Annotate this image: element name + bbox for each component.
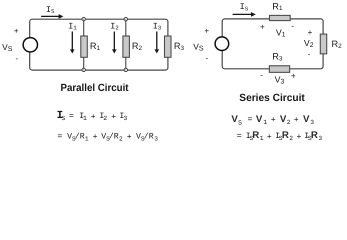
svg-text:R1: R1 [272,1,283,12]
svg-text:-: - [308,49,311,58]
svg-text:R2: R2 [132,41,143,52]
wire: parallel branch 2 vertical [125,19,127,70]
svg-text:V2: V2 [304,38,314,49]
svg-text:VS=V1+V2+V3: VS=V1+V2+V3 [231,114,314,127]
svg-text:+: + [260,23,265,32]
svg-text:I3: I3 [153,22,162,32]
svg-text:+: + [291,71,296,80]
resistor R2 (series) [320,34,326,54]
svg-text:V1: V1 [276,28,286,39]
node: junction bottom-right [124,68,127,71]
svg-text:-: - [291,22,294,31]
node: junction top-right [124,17,127,20]
svg-text:V3: V3 [275,74,285,85]
svg-text:-: - [260,70,263,79]
svg-text:IS: IS [240,2,249,12]
svg-text:Parallel Circuit: Parallel Circuit [61,83,130,94]
svg-text:+: + [204,26,209,35]
svg-text:Series Circuit: Series Circuit [239,93,305,104]
resistor R2 [123,36,129,57]
wire: parallel circuit outer loop [30,19,168,70]
svg-text:R2: R2 [332,39,343,50]
svg-text:=ISR1+ISR2+ISR3: =ISR1+ISR2+ISR3 [237,130,323,142]
svg-text:+: + [14,26,19,35]
current arrow I3 [156,32,158,50]
voltage source VS (series) [215,37,229,51]
current arrow IS (parallel) [41,15,59,17]
current arrow IS (series) [233,13,252,15]
svg-text:I2: I2 [110,22,119,32]
resistor R3 (parallel) [165,36,172,57]
svg-text:R3: R3 [272,52,283,63]
current arrow I1 [71,32,73,50]
resistor R1 [81,36,88,57]
svg-text:R3: R3 [174,41,185,52]
svg-text:+: + [308,28,313,37]
wire: series circuit outer loop [222,19,323,69]
svg-text:IS=I1+I2+I3: IS=I1+I2+I3 [57,110,128,122]
wire: parallel branch 1 vertical [83,19,85,70]
svg-text:-: - [16,54,19,63]
node: junction bottom-left [82,68,85,71]
resistor R3 (series) [269,66,289,73]
svg-text:I1: I1 [68,22,77,32]
svg-text:IS: IS [46,5,55,15]
node: junction top-left [82,17,85,20]
svg-text:-: - [206,53,209,62]
svg-text:VS: VS [193,41,204,52]
resistor R1 (series) [270,15,291,20]
svg-text:=VS/R1+VS/R2+VS/R3: =VS/R1+VS/R2+VS/R3 [57,132,158,142]
current arrow I2 [113,32,115,50]
svg-text:VS: VS [2,42,13,53]
voltage source VS (parallel) [23,38,37,52]
svg-text:R1: R1 [90,41,101,52]
